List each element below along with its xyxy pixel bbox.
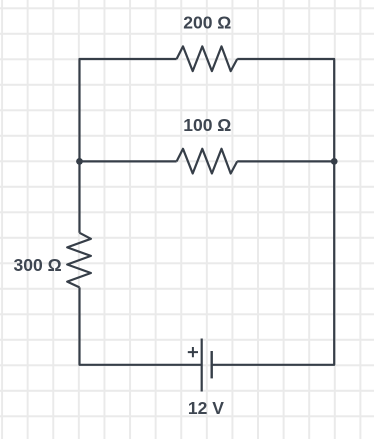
wire: top-left segment (top wire to left side down to R3) xyxy=(80,59,177,233)
wire: left side lower segment and bottom-left to battery xyxy=(80,287,202,364)
wire: middle branch left segment xyxy=(80,160,177,162)
battery V1 short plate (-) xyxy=(210,351,212,378)
resistor R2 100 ohm zigzag xyxy=(177,149,238,174)
resistor R3 300 ohm zigzag xyxy=(67,233,91,288)
battery plus sign xyxy=(188,347,198,357)
node B: right junction dot xyxy=(331,158,338,165)
node A: left junction dot xyxy=(76,158,83,165)
svg-text:12 V: 12 V xyxy=(188,398,224,418)
svg-text:300 Ω: 300 Ω xyxy=(14,255,62,275)
svg-text:100 Ω: 100 Ω xyxy=(183,115,231,135)
resistor R1 200 ohm zigzag xyxy=(177,46,238,71)
wire: top-right segment and right side down to bottom-right xyxy=(212,59,335,365)
battery V1 long plate (+) xyxy=(201,339,203,392)
wire: middle branch right segment xyxy=(237,160,334,162)
svg-text:200 Ω: 200 Ω xyxy=(183,13,231,33)
